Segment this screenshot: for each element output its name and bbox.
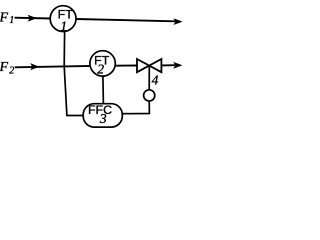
svg-text:4: 4 [152,72,159,87]
svg-text:2: 2 [9,66,14,77]
svg-text:1: 1 [9,15,14,26]
ratio controller FFC [83,103,122,127]
arrowhead on F2 inlet [30,63,39,70]
wire F1 line left segment [15,17,52,20]
wire actuator to FFC (down, corner, left) [122,101,149,114]
wire F2 line left segment [15,66,91,67]
wire FT1 to FFC (vertical drop and corner) [64,32,83,116]
valve actuator circle [144,90,155,101]
svg-text:1: 1 [60,18,67,33]
wire FT2 to valve [115,65,137,67]
control valve body (bowtie) [137,59,161,72]
svg-text:3: 3 [99,111,107,126]
wire FT2 to FFC (vertical) [102,76,105,105]
svg-text:F: F [0,60,9,75]
flow transmitter FT1 [50,6,76,34]
arrowhead F2 outlet [173,62,182,69]
arrowhead on F1 inlet [28,15,37,22]
svg-text:2: 2 [97,61,104,76]
node F2 label [0,60,14,77]
arrowhead F1 outlet [173,18,182,25]
wire valve outlet [161,64,175,66]
wire F1 line right segment [76,19,176,21]
wire valve stem down [148,66,150,90]
node F1 label [0,10,14,26]
svg-text:F: F [0,10,9,25]
flow transmitter FT2 [90,51,115,77]
